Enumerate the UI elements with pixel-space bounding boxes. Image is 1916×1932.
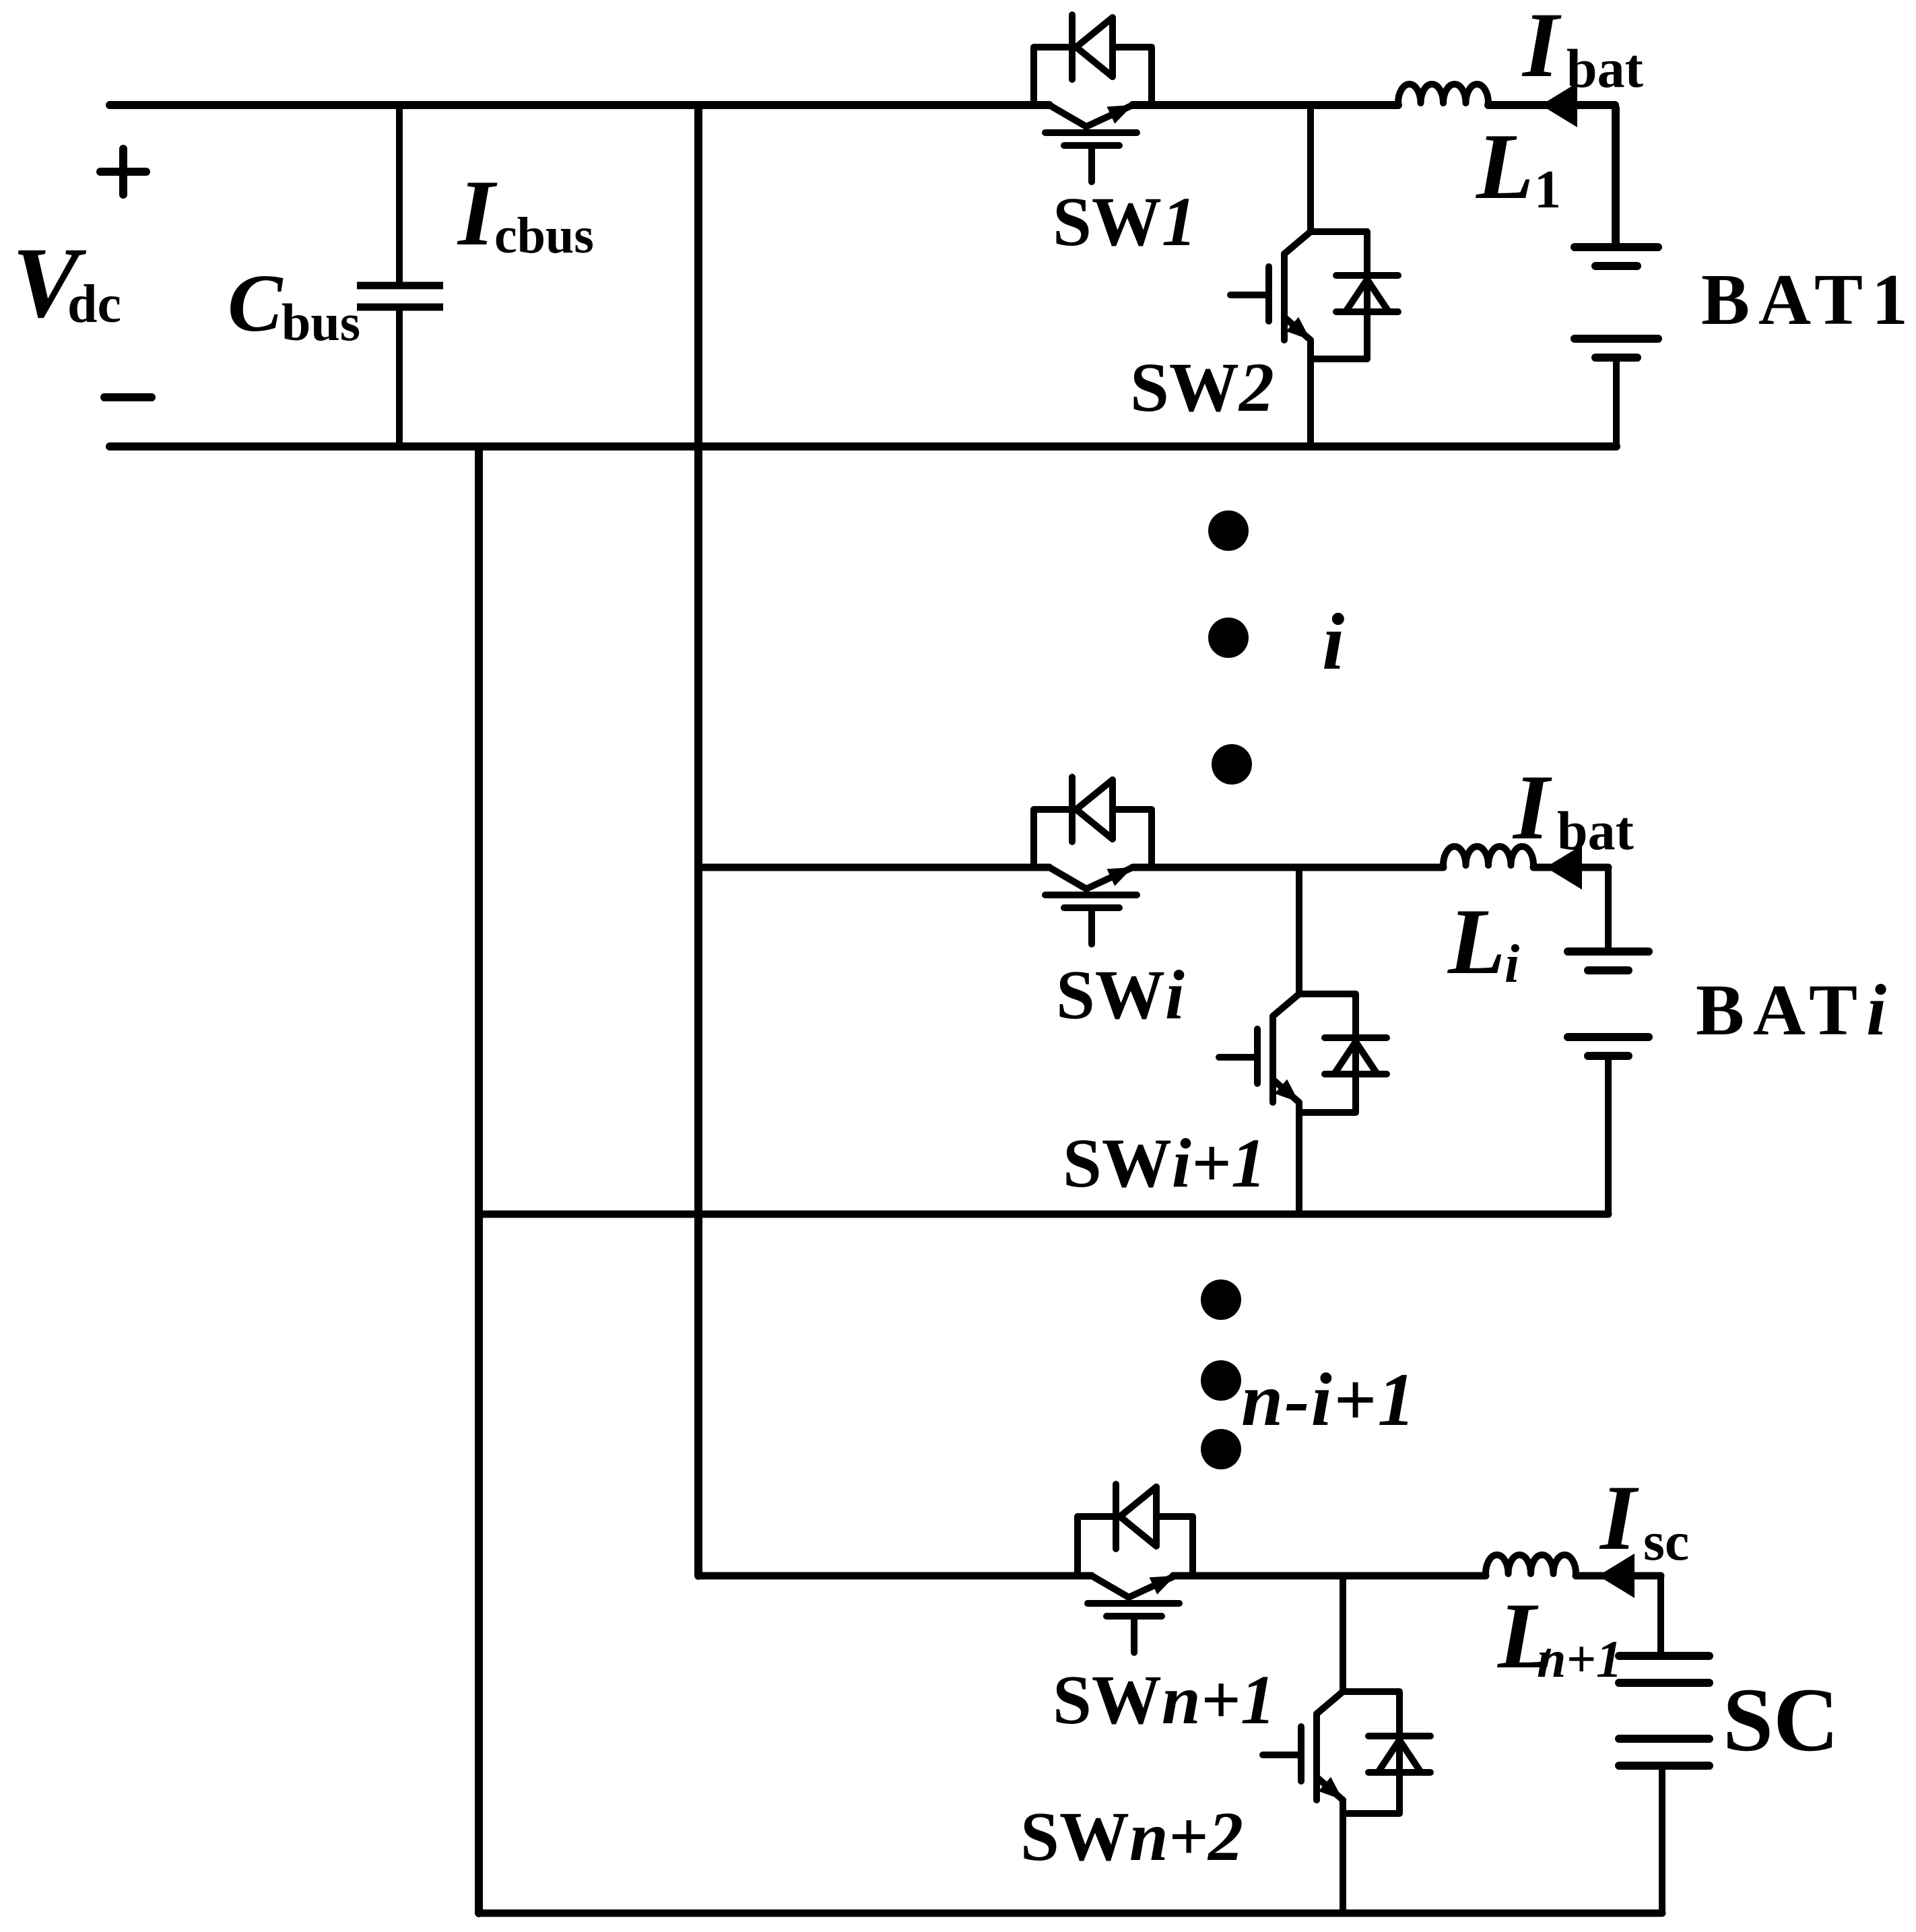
- transistor SWn+2: [1340, 1576, 1346, 1692]
- svg-text:i: i: [1505, 935, 1519, 994]
- svg-text:SC: SC: [1723, 1670, 1839, 1770]
- wire SWn+1/SWn+2 midpoint: [1340, 1576, 1346, 1692]
- diode SWi anti-parallel loop: [1034, 809, 1072, 867]
- wire Li to BATi: [1605, 867, 1612, 952]
- arrow Isc direction: [1598, 1554, 1634, 1598]
- diode SWn+1 anti-parallel loop: [1078, 1517, 1116, 1576]
- inductor L1: [1398, 84, 1488, 103]
- svg-text:cbus: cbus: [494, 207, 594, 264]
- svg-text:I: I: [457, 161, 498, 265]
- wire SW1/SW2 midpoint: [1307, 105, 1314, 232]
- node Vdc minus terminal: [104, 393, 152, 401]
- diode SWn+2: [1368, 1733, 1430, 1739]
- diode SWi: [1069, 777, 1076, 842]
- capacitor Cbus: [396, 105, 403, 286]
- svg-text:BAT1: BAT1: [1701, 260, 1916, 340]
- wire SC leg input bus: [698, 1572, 1092, 1580]
- wire leg i input bus: [698, 864, 1049, 871]
- svg-text:1: 1: [1534, 160, 1561, 220]
- wire SWn+2 emitter to SC return bus: [1340, 1800, 1346, 1913]
- svg-text:dc: dc: [67, 275, 121, 334]
- transistor SW2: [1307, 105, 1314, 232]
- svg-text:bat: bat: [1557, 800, 1634, 861]
- diode SWi+1: [1325, 1034, 1387, 1041]
- inductor Li: [1443, 846, 1533, 865]
- wire Ln+1 to SC: [1657, 1576, 1664, 1656]
- wire L1 to BAT1: [1612, 105, 1618, 247]
- svg-text:SWi+1: SWi+1: [1063, 1125, 1266, 1202]
- transistor SW1: [1049, 105, 1133, 127]
- svg-text:C: C: [228, 258, 284, 349]
- svg-text:SWn+1: SWn+1: [1053, 1661, 1276, 1739]
- wire SW2 emitter to DC- bus: [1307, 340, 1314, 446]
- diode SW2 anti-parallel loop: [1311, 232, 1367, 359]
- diode SWn+2 anti-parallel loop: [1343, 1692, 1399, 1813]
- svg-text:I: I: [1599, 1466, 1639, 1569]
- diode SW1 anti-parallel loop: [1034, 47, 1072, 105]
- arrow Ibat direction (leg 1): [1541, 83, 1577, 127]
- inductor Ln+1: [1486, 1555, 1576, 1574]
- svg-text:I: I: [1521, 0, 1562, 96]
- svg-text:bat: bat: [1566, 38, 1643, 99]
- battery BAT1: [1613, 108, 1620, 247]
- ellipsis dots (legs i..n): [1201, 1279, 1241, 1320]
- wire bottom DC- bus: [110, 442, 1616, 451]
- svg-text:SWi: SWi: [1056, 956, 1185, 1034]
- diode SWi+1 anti-parallel loop: [1299, 994, 1356, 1112]
- wire DC- distribution rail: [475, 446, 483, 1913]
- wire DC+ distribution rail: [694, 105, 702, 1576]
- svg-text:sc: sc: [1643, 1510, 1689, 1572]
- diode SW1: [1069, 15, 1076, 79]
- svg-text:L: L: [1475, 114, 1534, 219]
- node Vdc plus terminal: [100, 168, 146, 176]
- diode SWn+1: [1113, 1484, 1119, 1549]
- transistor SWn+1: [1092, 1576, 1175, 1597]
- svg-text:n-i+1: n-i+1: [1241, 1358, 1417, 1442]
- ellipsis dots (legs 1..i): [1208, 510, 1249, 551]
- arrow Ibat direction (leg i): [1546, 845, 1582, 890]
- svg-text:SW1: SW1: [1053, 183, 1197, 261]
- svg-text:BATi: BATi: [1696, 970, 1895, 1051]
- wire SWi+1 emitter to leg i return bus: [1296, 1102, 1302, 1214]
- wire SWi/SWi+1 midpoint: [1296, 867, 1302, 994]
- wire top DC+ bus: [110, 101, 1049, 109]
- svg-text:L: L: [1447, 890, 1506, 994]
- svg-text:I: I: [1512, 756, 1552, 859]
- wire SC leg return bus: [479, 1910, 1662, 1917]
- wire SC to return bus: [1659, 1766, 1665, 1913]
- svg-text:SW2: SW2: [1130, 349, 1274, 426]
- wire leg i return bus: [479, 1211, 1608, 1218]
- svg-text:i: i: [1322, 597, 1344, 686]
- transistor SWi+1: [1296, 867, 1302, 994]
- diode SW2: [1336, 272, 1398, 279]
- svg-text:bus: bus: [282, 293, 360, 352]
- transistor SWi: [1049, 867, 1133, 889]
- battery BATi: [1605, 870, 1612, 952]
- svg-text:SWn+2: SWn+2: [1020, 1798, 1243, 1875]
- supercapacitor SC: [1619, 1652, 1709, 1660]
- svg-text:n+1: n+1: [1537, 1630, 1622, 1688]
